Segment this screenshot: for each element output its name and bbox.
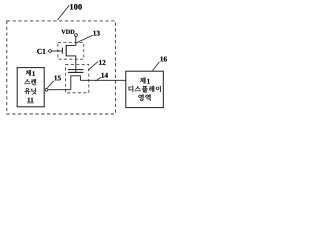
leader line for label 16 [152, 62, 159, 71]
transistor 13 gate bar [61, 48, 63, 54]
leader line for label 13 [76, 35, 92, 43]
label 16 [160, 57, 163, 62]
scan unit label 11 [28, 98, 30, 102]
scan unit text line1: 제1 [26, 70, 31, 76]
transistor 13 dashed box [58, 43, 84, 60]
wire VDD to transistor 13 drain [75, 37, 77, 46]
leader line for label 100 [58, 5, 70, 20]
wire C1 to gate of transistor 13 [51, 50, 62, 52]
display area text line1: 제1 [140, 77, 146, 83]
wire transistor 13 source down to transistor 12 [75, 56, 77, 73]
scan unit text line2: 스캔 [24, 79, 30, 84]
VDD terminal circle [75, 34, 78, 37]
label 13 [93, 31, 96, 36]
transistor 12 channel bar [68, 71, 84, 73]
outer dashed box: display device 100 [7, 21, 116, 114]
VDD net label [61, 30, 65, 34]
label 14 [101, 73, 104, 78]
transistor 13 channel bar [65, 45, 67, 57]
label 100 [70, 4, 73, 9]
scan unit text line3: 유닛 [24, 88, 30, 94]
display area text line2: 디스플레이 [128, 86, 133, 92]
leader line for label 15 [47, 81, 53, 88]
display area text line3: 영역 [138, 94, 143, 101]
transistor 12 gate bar [68, 69, 84, 71]
wire node 14 to display area [80, 79, 126, 81]
transistor 12 dashed box [66, 65, 89, 93]
first scan unit box [17, 68, 44, 107]
transistor 12 source/drain leads [71, 76, 81, 90]
label 12 [99, 60, 102, 65]
transistor 13 source lead [66, 55, 76, 57]
underline of label 11 [27, 102, 34, 104]
leader line for label 14 [96, 77, 101, 81]
capacitor C1 label [37, 49, 41, 54]
transistor 13 drain lead [66, 44, 76, 46]
C1 terminal circle [49, 50, 52, 53]
scan unit output terminal circle [45, 88, 48, 91]
first display area box [126, 71, 164, 107]
wire 15: scan unit to transistor 12 [48, 89, 71, 91]
leader line for label 12 [88, 62, 98, 71]
label 15 [54, 76, 57, 81]
